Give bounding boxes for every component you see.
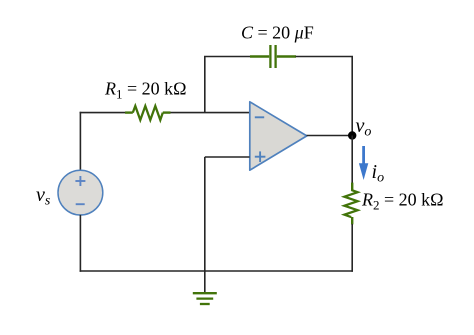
resistor R2: [344, 183, 357, 225]
wire output: [307, 135, 353, 137]
label vs: [36, 184, 51, 209]
voltage source vs: [58, 170, 103, 215]
label io: [372, 161, 385, 186]
svg-text:R2 = 20 kΩ: R2 = 20 kΩ: [361, 190, 444, 213]
resistor R1: [125, 106, 170, 120]
wire right vertical lower (R2 to bottom): [351, 224, 353, 272]
svg-text:R1 = 20 kΩ: R1 = 20 kΩ: [104, 79, 187, 102]
wire bottom: [80, 270, 353, 272]
label vo: [356, 115, 372, 140]
wire left vertical lower (source to bottom): [79, 215, 81, 272]
label R1 = 20 kOhm: [104, 79, 187, 102]
label C = 20 uF: [241, 23, 314, 43]
op-amp U1: [250, 102, 307, 170]
wire left vertical upper (corner to source): [79, 112, 81, 171]
wire mid vertical (plus input to bottom): [204, 157, 206, 272]
svg-text:C = 20 μF: C = 20 μF: [241, 23, 314, 43]
node vo dot: [348, 131, 356, 139]
wire top-left segment (cap left lead to corner): [205, 57, 251, 113]
svg-text:io: io: [372, 161, 385, 186]
wire non-inverting input: [205, 156, 250, 158]
svg-text:vo: vo: [356, 115, 372, 140]
capacitor C1: [250, 45, 296, 68]
wire right vertical upper (node to R2): [351, 136, 353, 184]
label R2 = 20 kOhm: [361, 190, 444, 213]
wire top-right segment (cap to right vertical): [296, 57, 353, 132]
current arrow io: [359, 146, 368, 180]
svg-text:vs: vs: [36, 184, 51, 209]
ground: [193, 271, 217, 304]
wire inverting input (left horizontal): [80, 112, 250, 114]
